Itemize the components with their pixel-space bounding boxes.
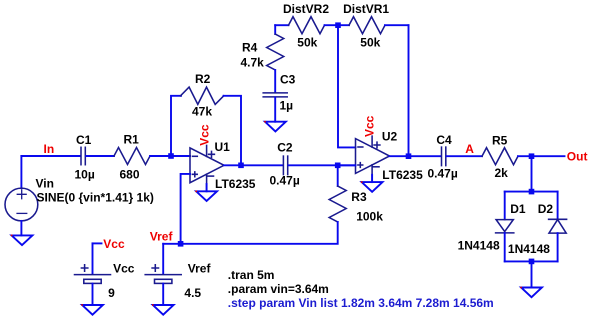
svg-text:DistVR2: DistVR2: [283, 2, 329, 16]
svg-text:U2: U2: [382, 129, 398, 143]
svg-text:1N4148: 1N4148: [458, 238, 500, 252]
svg-text:U1: U1: [215, 140, 231, 154]
svg-text:SINE(0 {vin*1.41} 1k): SINE(0 {vin*1.41} 1k): [37, 190, 154, 204]
svg-text:1µ: 1µ: [280, 98, 294, 112]
svg-text:1N4148: 1N4148: [508, 242, 550, 256]
svg-text:R1: R1: [124, 133, 140, 147]
svg-text:Vcc: Vcc: [113, 261, 135, 275]
svg-text:DistVR1: DistVR1: [343, 2, 389, 16]
svg-text:0.47µ: 0.47µ: [270, 173, 300, 187]
svg-text:C3: C3: [280, 73, 296, 87]
svg-text:Vin: Vin: [36, 176, 54, 190]
svg-text:4.7k: 4.7k: [241, 56, 265, 70]
svg-text:680: 680: [120, 168, 140, 182]
svg-text:R2: R2: [195, 72, 211, 86]
svg-text:C4: C4: [436, 133, 452, 147]
svg-text:.step param Vin list 1.82m 3.6: .step param Vin list 1.82m 3.64m 7.28m 1…: [228, 296, 494, 310]
svg-text:Vref: Vref: [188, 261, 212, 275]
svg-text:.param vin=3.64m: .param vin=3.64m: [228, 282, 329, 296]
svg-text:Vref: Vref: [150, 230, 174, 244]
svg-text:4.5: 4.5: [184, 286, 201, 300]
svg-text:R4: R4: [242, 41, 258, 55]
svg-text:C1: C1: [76, 133, 92, 147]
svg-text:R5: R5: [492, 133, 508, 147]
svg-text:D2: D2: [538, 202, 554, 216]
svg-text:A: A: [465, 142, 474, 156]
svg-text:50k: 50k: [360, 35, 380, 49]
svg-text:47k: 47k: [192, 105, 212, 119]
svg-text:LT6235: LT6235: [382, 168, 423, 182]
svg-text:100k: 100k: [356, 209, 383, 223]
svg-text:Vcc: Vcc: [103, 237, 125, 251]
svg-text:LT6235: LT6235: [215, 177, 256, 191]
svg-text:9: 9: [108, 286, 115, 300]
svg-text:C2: C2: [277, 140, 293, 154]
svg-text:.tran 5m: .tran 5m: [228, 268, 275, 282]
svg-text:10µ: 10µ: [75, 168, 95, 182]
svg-text:Out: Out: [567, 150, 588, 164]
svg-text:R3: R3: [351, 190, 367, 204]
svg-text:D1: D1: [510, 202, 526, 216]
svg-text:In: In: [44, 142, 55, 156]
svg-text:Vcc: Vcc: [363, 115, 377, 137]
svg-text:0.47µ: 0.47µ: [428, 167, 458, 181]
svg-text:Vcc: Vcc: [198, 124, 212, 146]
svg-text:2k: 2k: [495, 166, 509, 180]
svg-text:50k: 50k: [297, 35, 317, 49]
